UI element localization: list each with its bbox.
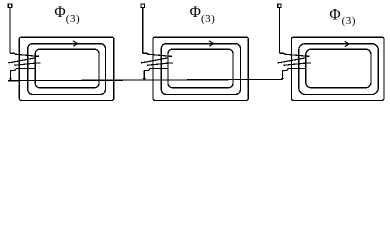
- core 2 middle contour: [161, 44, 240, 95]
- winding W3 turn D: [282, 69, 305, 71]
- core 2 outer boundary: [153, 37, 248, 100]
- wire: W1 down to sense line: [10, 71, 12, 81]
- wire: T2 lead down: [142, 8, 144, 54]
- svg-text:Φ: Φ: [329, 6, 340, 23]
- wire: T1 lead down: [9, 8, 11, 54]
- winding W2 turn D: [144, 69, 168, 71]
- winding W2 turn B: [141, 58, 169, 63]
- core 3 outer boundary: [291, 37, 384, 100]
- svg-text:Φ: Φ: [190, 4, 201, 21]
- wire: W3 down to sense line: [281, 71, 283, 80]
- winding W3 turn A: [279, 53, 309, 56]
- svg-text:(3): (3): [342, 15, 356, 27]
- flux direction arrow core 2: [209, 41, 214, 46]
- wire: W2 down to sense line: [143, 71, 145, 80]
- svg-text:(3): (3): [66, 13, 80, 25]
- junction arrow node 2: [143, 78, 146, 80]
- core 3 inner contour: [306, 49, 371, 88]
- junction arrow node 1: [9, 79, 12, 81]
- winding W2 turn A: [143, 53, 172, 56]
- flux direction arrow core 3: [345, 41, 350, 46]
- core 3 middle contour: [299, 44, 379, 95]
- winding W2 turn C: [147, 63, 173, 65]
- winding W1 turn B: [8, 58, 36, 63]
- svg-text:Φ: Φ: [54, 4, 65, 21]
- flux direction arrow core 1: [73, 41, 78, 46]
- terminal T2: [141, 4, 144, 7]
- winding W3 turn B: [278, 58, 307, 63]
- winding W1 turn C: [14, 63, 40, 65]
- winding W1 turn A: [10, 53, 39, 56]
- junction arrow node 3: [281, 78, 284, 80]
- wire: common sense line through all cores: [8, 79, 282, 80]
- core 1 middle contour: [28, 44, 106, 95]
- core 1 outer boundary: [19, 37, 114, 100]
- core 2 inner contour: [168, 49, 233, 88]
- core 1 inner contour: [35, 49, 99, 88]
- winding W1 turn D: [11, 69, 36, 71]
- terminal T3: [278, 4, 281, 7]
- svg-text:(3): (3): [201, 13, 215, 25]
- wire: T3 lead down: [278, 8, 280, 54]
- terminal T1: [8, 4, 11, 7]
- winding W3 turn C: [284, 63, 311, 65]
